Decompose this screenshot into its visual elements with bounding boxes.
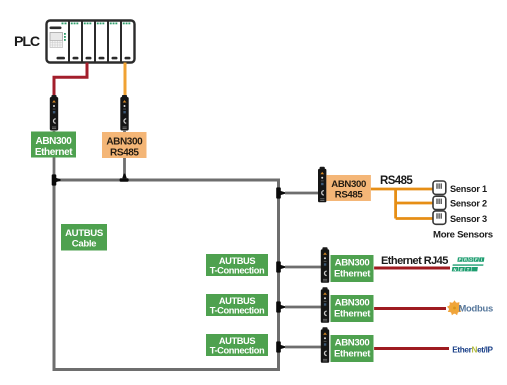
svg-text:More Sensors: More Sensors xyxy=(433,230,493,241)
ABN300 Ethernet converter U6 xyxy=(321,327,329,363)
svg-text:Modbus: Modbus xyxy=(459,303,493,314)
label: AUTBUS T-Connection 2 xyxy=(206,294,268,316)
label: ABN300 RS485 (U2) xyxy=(102,132,147,159)
ABN300 Ethernet converter U5 xyxy=(321,287,329,323)
ABN300 Ethernet converter U1 xyxy=(50,95,58,131)
logo: Modbus xyxy=(447,300,493,315)
label: ABN300 Ethernet (U4) xyxy=(331,255,374,282)
svg-text:Sensor 1: Sensor 1 xyxy=(450,184,487,194)
label: ABN300 Ethernet (U6) xyxy=(331,335,374,362)
svg-text:T-Connection: T-Connection xyxy=(210,345,265,355)
label: ABN300 Ethernet (U5) xyxy=(331,295,374,322)
svg-text:Ethernet: Ethernet xyxy=(334,308,371,319)
wire W11: U5 to Modbus (dark red) xyxy=(374,307,446,310)
wire W12: U6 to EtherNet/IP (dark red) xyxy=(374,347,449,350)
wire W8: J5 to U5 (gray) xyxy=(285,306,322,309)
T-connector J5 (right edge, to U5) xyxy=(276,301,285,312)
svg-text:ABN300: ABN300 xyxy=(331,179,366,190)
svg-text:ABN300: ABN300 xyxy=(106,137,143,148)
wire W1: PLC to ABN300 Ethernet (red) xyxy=(54,63,87,97)
wire W4: U2 to AUTBUS loop (gray) xyxy=(123,130,126,180)
label: AUTBUS T-Connection 1 xyxy=(206,254,268,276)
svg-text:Sensor 3: Sensor 3 xyxy=(450,214,487,224)
svg-text:AUTBUS: AUTBUS xyxy=(219,256,256,266)
svg-text:T-Connection: T-Connection xyxy=(210,265,265,275)
svg-text:AUTBUS: AUTBUS xyxy=(65,228,104,239)
svg-text:ABN300: ABN300 xyxy=(335,258,370,269)
svg-text:AUTBUS: AUTBUS xyxy=(219,336,256,346)
T-connector J3 (right edge, to U3) xyxy=(276,187,285,198)
svg-text:EtherNet/IP: EtherNet/IP xyxy=(452,345,493,354)
T-connector J6 (right edge, to U6) xyxy=(276,341,285,352)
wire W9: J6 to U6 (gray) xyxy=(285,346,322,349)
wire W6: U3 to sensors (orange bus) xyxy=(371,189,433,219)
wire W5: J3 to U3 (gray) xyxy=(285,192,319,195)
svg-text:ABN300: ABN300 xyxy=(335,298,370,309)
AUTBUS cable loop (bus ring) xyxy=(54,180,279,370)
svg-text:ABN300: ABN300 xyxy=(335,338,370,349)
wire W7: J4 to U4 (gray) xyxy=(285,266,322,269)
T-connector J4 (right edge, to U4) xyxy=(276,261,285,272)
svg-text:RS485: RS485 xyxy=(335,190,364,201)
label: ABN300 Ethernet (U1) xyxy=(31,132,76,159)
wire W3: U1 to AUTBUS loop (gray) xyxy=(53,130,56,180)
sensor S3 xyxy=(433,211,446,224)
svg-text:ABN300: ABN300 xyxy=(36,136,73,147)
T-connector J2 (top edge, U2 drop) xyxy=(120,174,129,182)
svg-text:RS485: RS485 xyxy=(380,175,413,187)
svg-text:AUTBUS: AUTBUS xyxy=(219,296,256,306)
ABN300 RS485 converter U3 xyxy=(318,167,326,203)
wire W10: U4 to PROFINET (dark red) xyxy=(374,267,450,270)
wire W2: PLC to ABN300 RS485 (orange) xyxy=(124,63,127,97)
T-connector J1 (top-left corner, U1 drop) xyxy=(52,174,61,185)
label: AUTBUS Cable xyxy=(61,224,107,251)
svg-text:Ethernet RJ45: Ethernet RJ45 xyxy=(381,255,448,267)
ABN300 RS485 converter U2 xyxy=(120,95,128,131)
svg-text:Cable: Cable xyxy=(72,239,96,250)
sensor S1 xyxy=(433,181,446,194)
label: ABN300 RS485 (U3) xyxy=(326,175,371,201)
sensor S2 xyxy=(433,196,446,209)
svg-text:Ethernet: Ethernet xyxy=(334,268,371,279)
PLC rack xyxy=(47,21,135,63)
svg-text:RS485: RS485 xyxy=(110,148,139,159)
ABN300 Ethernet converter U4 xyxy=(321,247,329,282)
svg-text:PLC: PLC xyxy=(14,34,40,50)
logo: PROFINET xyxy=(452,257,485,272)
svg-text:Sensor 2: Sensor 2 xyxy=(450,199,487,209)
label: AUTBUS T-Connection 3 xyxy=(206,334,268,356)
svg-text:T-Connection: T-Connection xyxy=(210,305,265,315)
svg-text:Ethernet: Ethernet xyxy=(334,348,371,359)
svg-text:Ethernet: Ethernet xyxy=(35,147,73,158)
